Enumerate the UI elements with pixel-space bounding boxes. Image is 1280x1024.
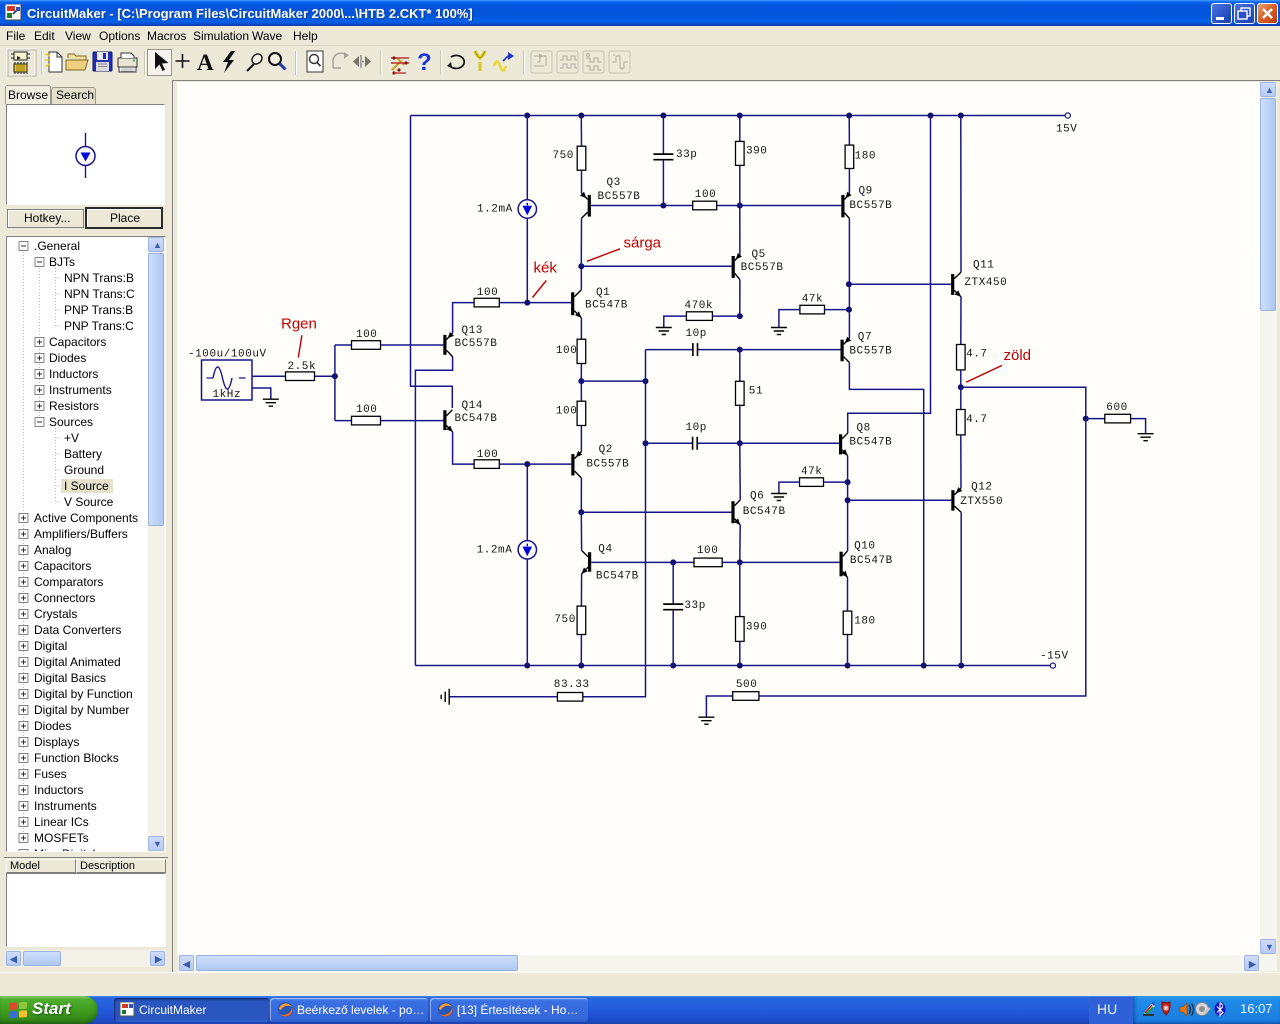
icon 3: speaker orange bbox=[1180, 1003, 1187, 1016]
model/description panel bbox=[4, 857, 168, 965]
transistor Q10 BC547B bbox=[840, 552, 843, 577]
icon 1: arrow chart bbox=[1143, 1014, 1154, 1016]
resistor 100 (Q13 base) bbox=[352, 341, 381, 350]
resistor 100 (Q4 base) bbox=[694, 558, 722, 567]
transistor Q2 BC557B bbox=[571, 454, 574, 475]
wire Q13 collector down to bottom rail bbox=[415, 357, 452, 666]
canvas horizontal scrollbar bbox=[178, 955, 1260, 972]
svg-text:Capacitors: Capacitors bbox=[49, 335, 106, 349]
junction x739 y205 bbox=[737, 203, 743, 209]
zoom page bbox=[307, 51, 323, 72]
svg-text:83.33: 83.33 bbox=[554, 679, 590, 691]
junction bottom rail x=923.7 bbox=[921, 663, 927, 669]
resistor 600 load bbox=[1105, 414, 1131, 423]
svg-text:A: A bbox=[197, 50, 214, 75]
wire Q6 collector up to x739 node bbox=[739, 443, 741, 500]
wire Q3 collector to sarga node bbox=[580, 218, 582, 266]
svg-text:ZTX550: ZTX550 bbox=[960, 496, 1003, 508]
svg-text:-15V: -15V bbox=[1040, 650, 1069, 662]
wire Q9 collector down to Q7 emitter bbox=[848, 219, 850, 339]
svg-text:BC547B: BC547B bbox=[850, 555, 893, 567]
wire 600 to ground bbox=[1131, 419, 1146, 434]
svg-text:33p: 33p bbox=[684, 600, 705, 612]
icon 5: bluetooth bbox=[1215, 1002, 1226, 1016]
svg-text:Amplifiers/Buffers: Amplifiers/Buffers bbox=[34, 527, 128, 541]
svg-text:Instruments: Instruments bbox=[34, 799, 97, 813]
svg-text:ZTX450: ZTX450 bbox=[964, 277, 1007, 289]
junction x739 y562 bbox=[737, 559, 743, 565]
wire Q13 emitter to 100 bbox=[453, 303, 475, 334]
svg-text:10p: 10p bbox=[686, 422, 707, 434]
svg-text:Digital by Number: Digital by Number bbox=[34, 703, 129, 717]
transistor Q3 BC557B bbox=[588, 195, 591, 217]
selected arrow tool bbox=[148, 50, 172, 76]
svg-text:100: 100 bbox=[477, 287, 498, 299]
wire 180 to Q9 emitter bbox=[848, 169, 850, 194]
junction x849 y284 bbox=[846, 281, 852, 287]
resistor 100 (Q14 base) bbox=[352, 416, 381, 425]
signal generator V1 1kHz box bbox=[202, 360, 253, 400]
resistor 390 top bbox=[739, 116, 741, 142]
svg-text:Digital Animated: Digital Animated bbox=[34, 655, 121, 669]
svg-text:BC557B: BC557B bbox=[598, 191, 641, 203]
resistor 750 (Q4 emitter) bbox=[580, 574, 582, 606]
junction input node bbox=[332, 373, 338, 379]
svg-text:Q12: Q12 bbox=[971, 482, 992, 494]
svg-text:BC547B: BC547B bbox=[596, 571, 639, 583]
capacitor 33p bottom bbox=[672, 562, 674, 604]
rotate gray bbox=[333, 53, 347, 68]
resistor 180 bottom bbox=[847, 577, 849, 611]
svg-text:Inductors: Inductors bbox=[49, 367, 98, 381]
svg-text:Capacitors: Capacitors bbox=[34, 559, 91, 573]
wire zold node to output column bbox=[961, 387, 1086, 418]
transistor Q9 BC557B bbox=[841, 195, 844, 217]
wire x645 vertical to 83.33 bbox=[583, 350, 646, 697]
svg-text:PNP Trans:B: PNP Trans:B bbox=[64, 303, 133, 317]
wire 100 to kek node bbox=[499, 302, 527, 304]
svg-text:Q6: Q6 bbox=[750, 491, 764, 503]
svg-text:BC557B: BC557B bbox=[849, 346, 892, 358]
svg-text:4.7: 4.7 bbox=[966, 349, 987, 361]
color wires icon bbox=[392, 58, 404, 70]
transistor Q4 BC547B bbox=[588, 552, 591, 572]
print bbox=[118, 58, 137, 67]
wire sarga node to Q5 base bbox=[581, 265, 731, 267]
svg-text:Function Blocks: Function Blocks bbox=[34, 751, 119, 765]
probe bbox=[247, 64, 254, 71]
svg-text:500: 500 bbox=[736, 679, 757, 691]
svg-text:+V: +V bbox=[64, 431, 79, 445]
svg-text:Battery: Battery bbox=[64, 447, 102, 461]
wire 100 to Q2 emitter bbox=[580, 426, 582, 452]
svg-text:180: 180 bbox=[854, 616, 875, 628]
svg-text:Misc Digital: Misc Digital bbox=[34, 847, 95, 851]
svg-text:Q4: Q4 bbox=[598, 544, 612, 556]
wire Q12 base line bbox=[848, 499, 952, 501]
canvas vertical scrollbar bbox=[1260, 82, 1277, 971]
new bbox=[49, 52, 62, 72]
svg-text:BC547B: BC547B bbox=[455, 413, 498, 425]
wire Q2 collector down to node bbox=[580, 478, 582, 512]
wire 47k left to ground bbox=[779, 310, 800, 328]
svg-text:15V: 15V bbox=[1056, 123, 1077, 135]
svg-text:Q9: Q9 bbox=[859, 186, 873, 198]
svg-text:390: 390 bbox=[746, 622, 767, 634]
wire feedback output down to 500 bbox=[759, 419, 1086, 696]
svg-text:Rgen: Rgen bbox=[281, 316, 317, 333]
junction x663 y205 bbox=[660, 203, 666, 209]
svg-text:Instruments: Instruments bbox=[49, 383, 112, 397]
svg-text:Digital Basics: Digital Basics bbox=[34, 671, 106, 685]
svg-text:Analog: Analog bbox=[34, 543, 71, 557]
svg-text:BC557B: BC557B bbox=[849, 200, 892, 212]
svg-text:Q1: Q1 bbox=[596, 287, 610, 299]
split arrows bbox=[361, 55, 364, 68]
svg-text:I Source: I Source bbox=[64, 479, 109, 493]
svg-text:Q2: Q2 bbox=[599, 444, 613, 456]
svg-text:100: 100 bbox=[695, 189, 716, 201]
task buttons bbox=[114, 998, 269, 1022]
svg-text:BC557B: BC557B bbox=[741, 262, 784, 274]
transistor Q13 BC557B bbox=[443, 335, 446, 355]
icon 2: red shield bbox=[1162, 1002, 1170, 1015]
wire mid node to x645 bbox=[581, 380, 645, 382]
junction x849 y309 bbox=[846, 307, 852, 313]
svg-text:Q5: Q5 bbox=[752, 249, 766, 261]
junction top rail x=960.8 bbox=[958, 113, 964, 119]
svg-text:47k: 47k bbox=[802, 294, 823, 306]
wire node to Q6 base bbox=[581, 511, 731, 513]
resistor 100 (Q3 base) bbox=[693, 201, 717, 210]
wire input node vertical bbox=[334, 345, 336, 421]
wire node to R 100 upper bbox=[335, 344, 352, 346]
current source I2 1.2mA bottom bbox=[526, 464, 528, 540]
svg-text:Q11: Q11 bbox=[973, 260, 994, 272]
svg-text:100: 100 bbox=[477, 449, 498, 461]
svg-text:1.2mA: 1.2mA bbox=[477, 545, 513, 557]
buttons bbox=[7, 209, 84, 228]
wire 100 to mid node bbox=[580, 363, 582, 381]
junction top rail x=849.2 bbox=[846, 113, 852, 119]
svg-text:1.2mA: 1.2mA bbox=[477, 204, 513, 216]
resistor 83.33 feedback bbox=[557, 693, 582, 702]
resistor 390 bottom bbox=[739, 562, 741, 616]
junction x673 y562 bbox=[670, 559, 676, 565]
terminal -15V bbox=[1050, 663, 1055, 668]
resistor 51 bbox=[739, 350, 741, 382]
junction top rail x=581.3 bbox=[578, 113, 584, 119]
capacitor 10p lower bbox=[646, 442, 693, 444]
wire x739 node to Q10 base bbox=[740, 561, 840, 563]
resistor 100 (Q1 emitter) bbox=[577, 339, 586, 363]
wire x739 node to Q9 base bbox=[740, 205, 842, 207]
svg-text:Digital by Function: Digital by Function bbox=[34, 687, 133, 701]
ground at 47k lower bbox=[771, 494, 787, 501]
icon 4: gray speaker bbox=[1196, 1003, 1209, 1016]
svg-text:750: 750 bbox=[554, 614, 575, 626]
preview box bbox=[6, 104, 165, 205]
svg-text:NPN Trans:C: NPN Trans:C bbox=[64, 287, 135, 301]
wire -15V bottom rail bbox=[415, 665, 1050, 667]
svg-text:PNP Trans:C: PNP Trans:C bbox=[64, 319, 134, 333]
svg-text:Resistors: Resistors bbox=[49, 399, 99, 413]
terminal 15V bbox=[1065, 113, 1070, 118]
svg-text:Comparators: Comparators bbox=[34, 575, 103, 589]
resistor 4.7 lower bbox=[960, 387, 962, 409]
wire x663 node to 100 bbox=[663, 205, 692, 207]
transistor Q5 BC557B bbox=[732, 256, 735, 278]
ground rotated at 83.33 bbox=[441, 689, 449, 705]
wire Q4 base to x673 node bbox=[591, 561, 673, 563]
wire 47k left to ground bbox=[779, 482, 800, 493]
transistor Q1 BC547B bbox=[571, 292, 574, 315]
wire 47k right to node bbox=[824, 481, 848, 483]
resistor 750 (Q3 emitter) bbox=[580, 116, 582, 147]
wire 470k right to node bbox=[712, 315, 739, 317]
lightning bbox=[223, 51, 235, 73]
resistor 500 feedback bbox=[733, 692, 759, 701]
wire Q14 emitter to 100 bbox=[453, 432, 475, 464]
svg-text:10p: 10p bbox=[686, 328, 707, 340]
svg-text:100: 100 bbox=[356, 404, 377, 416]
resistor 100 (Q2 emitter) bbox=[580, 381, 582, 401]
svg-text:180: 180 bbox=[855, 151, 876, 163]
system tray bbox=[1133, 996, 1280, 1024]
svg-text:Q10: Q10 bbox=[854, 541, 875, 553]
svg-text:100: 100 bbox=[697, 545, 718, 557]
svg-text:zöld: zöld bbox=[1004, 347, 1032, 364]
transistor Q12 ZTX550 bbox=[951, 490, 954, 510]
wire Q3 base to x663 node bbox=[591, 205, 664, 207]
wire 100 to Q13 base bbox=[381, 344, 444, 346]
wire 2.5k to input node bbox=[315, 375, 335, 377]
svg-text:.General: .General bbox=[34, 239, 80, 253]
svg-text:-100u/100uV: -100u/100uV bbox=[188, 349, 267, 361]
ground at 600 bbox=[1138, 434, 1154, 441]
svg-text:BC547B: BC547B bbox=[849, 437, 892, 449]
svg-text:Q8: Q8 bbox=[857, 423, 871, 435]
digital/analog button bbox=[7, 49, 35, 75]
save bbox=[93, 52, 112, 71]
svg-text:Crystals: Crystals bbox=[34, 607, 77, 621]
wire 47k right to node bbox=[825, 309, 850, 311]
ground at 470k bbox=[656, 328, 672, 335]
junction sarga node bbox=[578, 263, 584, 269]
wire Q1 collector to sarga node bbox=[580, 266, 582, 290]
wire 500 to ground bbox=[706, 696, 732, 717]
svg-text:BC547B: BC547B bbox=[585, 299, 628, 311]
resistor 180 top bbox=[848, 116, 850, 146]
svg-text:BC557B: BC557B bbox=[455, 338, 498, 350]
svg-text:Q14: Q14 bbox=[462, 400, 483, 412]
tabs bbox=[5, 85, 51, 104]
wire kek node to Q1 base bbox=[527, 302, 571, 304]
junction lower diff node bbox=[524, 461, 530, 467]
wire Q1 emitter down bbox=[580, 318, 582, 340]
svg-text:Active Components: Active Components bbox=[34, 511, 138, 525]
junction top rail x=527.3 bbox=[524, 113, 530, 119]
junction x847 y482 bbox=[845, 479, 851, 485]
transistor Q11 ZTX450 bbox=[951, 274, 954, 295]
wire Q12 collector to bottom rail bbox=[960, 512, 962, 665]
junction top rail x=739.8 bbox=[737, 113, 743, 119]
resistor 4.7 upper bbox=[960, 297, 962, 345]
wire Q6 emitter down to x739 node bbox=[739, 525, 741, 563]
junction bottom rail x=961.2 bbox=[958, 663, 964, 669]
svg-text:Ground: Ground bbox=[64, 463, 104, 477]
svg-text:Digital: Digital bbox=[34, 639, 67, 653]
junction x645 y381 bbox=[643, 378, 649, 384]
svg-text:Diodes: Diodes bbox=[34, 719, 71, 733]
junction zold node bbox=[958, 384, 964, 390]
svg-text:?: ? bbox=[417, 49, 432, 76]
wire output to 600 bbox=[1086, 418, 1105, 420]
wire Q8 collector to top rail via x930 bbox=[848, 116, 931, 434]
capacitor 10p upper bbox=[646, 349, 693, 351]
wire V1 pin2 to ground bbox=[252, 388, 271, 399]
plus bbox=[176, 54, 190, 68]
wire 470k left to ground bbox=[664, 316, 687, 327]
magnifier bbox=[269, 53, 281, 65]
svg-text:750: 750 bbox=[553, 150, 574, 162]
wire lower node to Q2 base bbox=[527, 463, 571, 465]
transistor Q8 BC547B bbox=[839, 434, 842, 454]
svg-text:BC547B: BC547B bbox=[743, 506, 786, 518]
wire Q4 collector up to node bbox=[580, 512, 582, 550]
rotate black bbox=[450, 55, 464, 68]
capacitor 33p top bbox=[662, 116, 664, 155]
svg-text:Fuses: Fuses bbox=[34, 767, 67, 781]
svg-text:100: 100 bbox=[556, 345, 577, 357]
svg-text:Q7: Q7 bbox=[858, 332, 872, 344]
junction bottom rail x=739.8 bbox=[737, 663, 743, 669]
svg-text:Inductors: Inductors bbox=[34, 783, 83, 797]
wire V1 out to Rgen bbox=[252, 375, 286, 377]
junction emitter mid node bbox=[578, 378, 584, 384]
HU indicator bbox=[1089, 997, 1133, 1024]
svg-text:V Source: V Source bbox=[64, 495, 114, 509]
resistor Rgen 2.5k bbox=[286, 372, 315, 381]
svg-text:390: 390 bbox=[746, 146, 767, 158]
svg-text:51: 51 bbox=[749, 386, 763, 398]
wire Q11 collector to top rail bbox=[960, 116, 962, 273]
svg-text:Linear ICs: Linear ICs bbox=[34, 815, 89, 829]
junction kek node bbox=[524, 300, 530, 306]
svg-text:100: 100 bbox=[356, 329, 377, 341]
junction bottom rail x=527.3 bbox=[524, 663, 530, 669]
wire +15V top rail bbox=[411, 115, 1066, 117]
wire node to R 100 lower bbox=[335, 420, 352, 422]
svg-text:Connectors: Connectors bbox=[34, 591, 95, 605]
wire 100 to Q14 base bbox=[381, 420, 444, 422]
resistor 100 (Q13 emitter) bbox=[474, 298, 499, 307]
junction top rail x=663.4 bbox=[660, 113, 666, 119]
yellow Y wrench bbox=[479, 62, 482, 71]
resistor 47k upper bbox=[800, 305, 825, 314]
junction x739 y443 bbox=[737, 440, 743, 446]
junction Q2 collector node bbox=[578, 509, 584, 515]
svg-text:Data Converters: Data Converters bbox=[34, 623, 121, 637]
svg-text:Diodes: Diodes bbox=[49, 351, 86, 365]
wire Q8 emitter down bbox=[847, 456, 849, 483]
wire x673 node to 100 bbox=[673, 561, 694, 563]
svg-text:Sources: Sources bbox=[49, 415, 93, 429]
tree scrollbar bbox=[148, 237, 165, 851]
junction x739 y316 bbox=[737, 313, 743, 319]
wire Q5 collector down bbox=[739, 280, 741, 317]
svg-text:47k: 47k bbox=[801, 466, 822, 478]
junction output y418 bbox=[1083, 416, 1089, 422]
svg-text:2.5k: 2.5k bbox=[288, 361, 317, 373]
wire 83.33 to rotated ground bbox=[450, 696, 558, 698]
svg-text:Q3: Q3 bbox=[607, 177, 621, 189]
4 gray instrument buttons bbox=[531, 51, 630, 73]
resistor 47k lower bbox=[800, 478, 824, 487]
transistor Q14 BC547B bbox=[443, 410, 446, 430]
junction x645 y443 bbox=[643, 440, 649, 446]
resistor 470k bbox=[686, 312, 712, 321]
tree box bbox=[6, 236, 166, 852]
svg-text:1kHz: 1kHz bbox=[213, 389, 242, 401]
svg-text:4.7: 4.7 bbox=[966, 414, 987, 426]
svg-text:BJTs: BJTs bbox=[49, 255, 75, 269]
wire 100 to x739 node bbox=[717, 205, 740, 207]
svg-text:NPN Trans:B: NPN Trans:B bbox=[64, 271, 134, 285]
svg-text:MOSFETs: MOSFETs bbox=[34, 831, 89, 845]
open bbox=[68, 54, 86, 60]
svg-text:BC557B: BC557B bbox=[586, 459, 629, 471]
wire Q7 collector to bottom rail via x923 bbox=[849, 363, 923, 666]
svg-text:470k: 470k bbox=[685, 300, 714, 312]
current source I1 1.2mA top bbox=[526, 116, 528, 200]
start button bbox=[0, 996, 98, 1024]
resistor 100 (Q14 emitter) bbox=[474, 460, 499, 469]
wire y284 to Q11 base bbox=[849, 283, 951, 285]
wire 100 to x739 node bbox=[722, 561, 740, 563]
junction x847 y500 bbox=[845, 497, 851, 503]
junction bottom rail x=581.3 bbox=[578, 663, 584, 669]
svg-text:Q13: Q13 bbox=[462, 325, 483, 337]
wire Q5 emitter up to x739 node bbox=[739, 206, 741, 255]
svg-text:Displays: Displays bbox=[34, 735, 79, 749]
svg-text:600: 600 bbox=[1106, 402, 1127, 414]
left panel h-scrollbar bbox=[6, 950, 166, 967]
svg-text:33p: 33p bbox=[676, 149, 697, 161]
junction bottom rail x=847.5 bbox=[845, 663, 851, 669]
ground at 500 bbox=[698, 717, 714, 724]
ground at V1 bbox=[263, 399, 279, 406]
wire 100 to lower node bbox=[499, 463, 527, 465]
junction bottom rail x=673.2 bbox=[670, 663, 676, 669]
junction top rail x=930.5 bbox=[928, 113, 934, 119]
ground at 47k upper bbox=[771, 328, 787, 335]
transistor Q6 BC547B bbox=[731, 501, 734, 523]
junction x739 y349 bbox=[737, 347, 743, 353]
wire x847 down to Q10 collector bbox=[847, 482, 849, 551]
svg-text:kék: kék bbox=[534, 260, 558, 277]
wave probe bbox=[494, 62, 506, 71]
svg-text:sárga: sárga bbox=[624, 235, 662, 252]
transistor Q7 BC557B bbox=[841, 340, 844, 362]
wire 750 to Q3 emitter bbox=[581, 170, 583, 193]
wire top rail down to Q14 collector bbox=[411, 116, 453, 409]
svg-text:100: 100 bbox=[556, 406, 577, 418]
